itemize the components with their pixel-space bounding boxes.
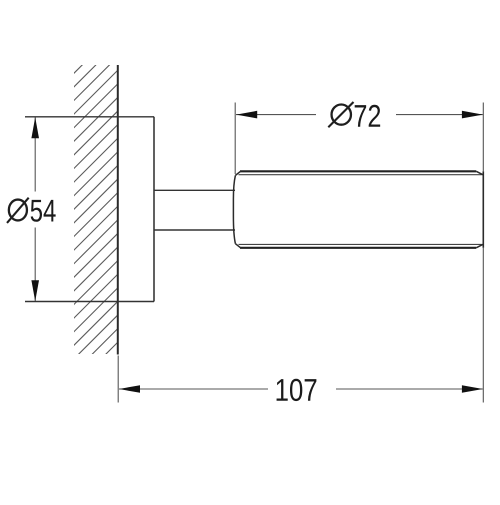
holder cylinder bottom inner chamfer line xyxy=(239,243,482,245)
holder cylinder bottom-left chamfer xyxy=(235,244,240,248)
107 dimension line right segment xyxy=(336,388,483,390)
holder cylinder top inner chamfer line xyxy=(239,174,482,176)
holder cylinder left curved edge xyxy=(233,175,235,243)
holder cylinder bottom-right chamfer xyxy=(476,244,483,248)
Ø72 label diameter symbol xyxy=(328,102,353,127)
mounting plate right edge xyxy=(153,117,155,302)
Ø54 dimension line upper segment xyxy=(34,118,36,192)
Ø54 label diameter symbol xyxy=(7,198,29,223)
holder cylinder right face xyxy=(482,171,484,248)
holder cylinder top-right chamfer xyxy=(476,171,483,175)
Ø72 left extension line xyxy=(234,103,236,175)
Ø54 bottom arrow xyxy=(31,280,39,301)
holder cylinder bottom edge xyxy=(240,247,476,249)
Ø54 top arrow xyxy=(31,117,39,138)
mounting plate (rosette) top outline / Ø54 top extension line xyxy=(25,116,154,118)
107 dimension line left segment xyxy=(119,388,268,390)
holder cylinder top-left chamfer xyxy=(235,171,240,175)
Ø72 label digits xyxy=(355,105,380,127)
holder cylinder top edge xyxy=(240,170,476,172)
Ø54 dimension line lower segment xyxy=(34,228,36,302)
wall face line xyxy=(117,65,119,355)
Ø72 right arrow xyxy=(462,111,483,119)
Ø72 / 107 right extension line xyxy=(482,103,484,172)
neck bottom line xyxy=(154,229,235,231)
107 label digits xyxy=(277,379,317,401)
Ø72 dimension line right segment xyxy=(396,114,483,116)
Ø54 label digits xyxy=(31,200,56,222)
107 left arrow xyxy=(119,385,140,393)
Ø72 left arrow xyxy=(236,111,257,119)
107 right arrow xyxy=(462,385,483,393)
107 left extension line xyxy=(117,356,119,403)
neck top line xyxy=(154,189,235,191)
mounting plate bottom outline / Ø54 bottom extension line xyxy=(25,301,154,303)
Ø72 dimension line left segment xyxy=(236,114,316,116)
